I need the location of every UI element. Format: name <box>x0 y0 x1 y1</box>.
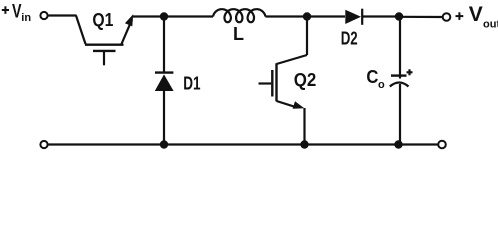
wire bottom rail left <box>48 143 164 145</box>
svg-text:Q2: Q2 <box>294 70 317 90</box>
node C (top of Co) <box>395 12 403 20</box>
node F (bottom of Co) <box>394 140 402 148</box>
inductor L <box>213 9 266 22</box>
wire L to node B <box>265 15 307 17</box>
capacitor Co <box>390 76 409 87</box>
label +Vout <box>456 3 498 31</box>
wire node C down to Co <box>399 17 401 79</box>
svg-text:o: o <box>378 79 385 91</box>
svg-text:D1: D1 <box>183 74 200 94</box>
svg-text:in: in <box>21 12 31 24</box>
node D (bottom of Q2) <box>300 140 308 148</box>
terminal +Vin <box>40 12 47 19</box>
svg-text:V: V <box>469 3 483 26</box>
wire bottom rail right <box>305 143 439 145</box>
svg-text:L: L <box>233 24 244 44</box>
wire node A down to D1 <box>163 17 165 73</box>
wire bottom rail middle <box>164 143 305 145</box>
svg-text:V: V <box>12 2 22 23</box>
node B (top of Q2) <box>303 12 311 20</box>
svg-text:D2: D2 <box>341 29 358 49</box>
wire D1 to node E <box>163 91 165 145</box>
diode D1 <box>155 73 174 91</box>
terminal bottom-right <box>438 141 446 149</box>
terminal bottom-left <box>40 141 47 148</box>
label +Vin <box>2 2 32 24</box>
transistor Q1 <box>76 14 133 65</box>
svg-text:out: out <box>483 19 498 31</box>
diode D2 <box>345 9 362 25</box>
transistor Q2 <box>259 17 308 145</box>
node A (top of D1) <box>160 12 168 20</box>
node E (bottom of D1) <box>160 140 168 148</box>
wire node C to output terminal <box>399 16 443 18</box>
wire Q1 to node A <box>133 15 164 17</box>
svg-text:Q1: Q1 <box>92 10 113 30</box>
plus polarity mark <box>407 69 413 75</box>
label Co <box>366 67 385 91</box>
wire node B to D2 <box>307 15 345 17</box>
terminal +Vout <box>443 13 451 21</box>
wire D2 to node C <box>362 15 399 17</box>
svg-text:C: C <box>366 67 378 87</box>
wire node A to inductor L <box>164 15 213 17</box>
wire input terminal to Q1 <box>48 14 77 16</box>
wire Co down to node F <box>399 84 401 145</box>
